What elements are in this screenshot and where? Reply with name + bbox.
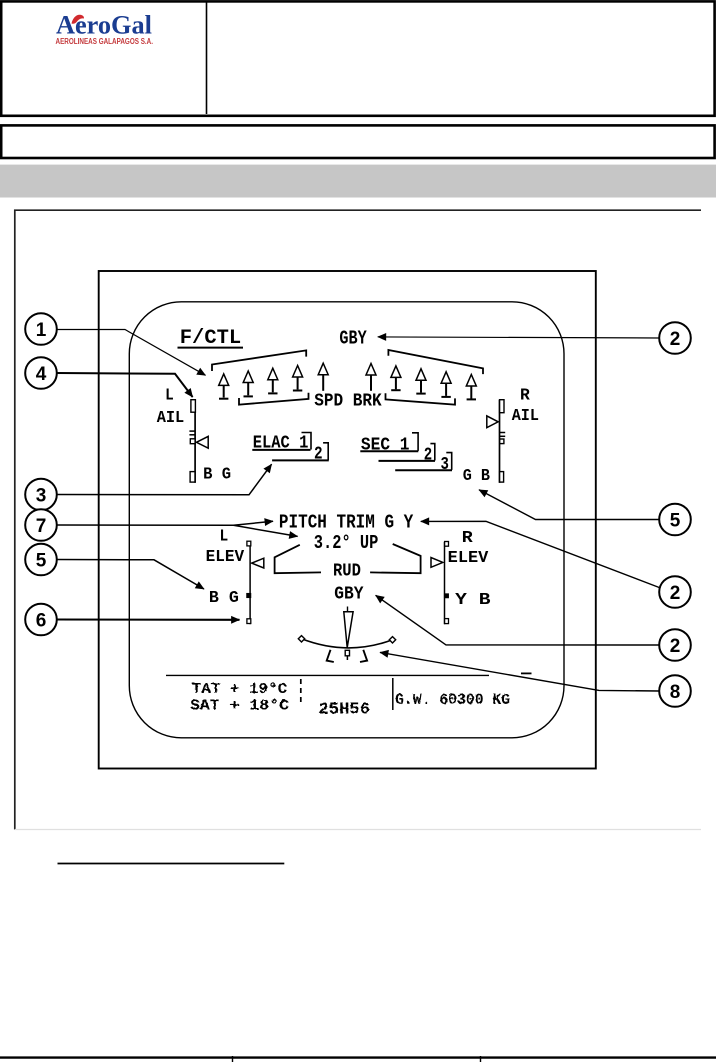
spoiler arrow L5 bbox=[318, 363, 328, 391]
svg-text:RUD: RUD bbox=[333, 562, 361, 582]
svg-text:3: 3 bbox=[36, 485, 47, 506]
callout line 2 mid bbox=[421, 521, 661, 588]
data row dashed divider bbox=[300, 679, 302, 706]
callout line 7 lower bbox=[234, 525, 298, 536]
callout circle 2 bbox=[659, 629, 691, 661]
svg-text:2: 2 bbox=[424, 445, 432, 465]
spoiler arrow L3 bbox=[268, 368, 278, 393]
svg-text:8: 8 bbox=[670, 682, 681, 703]
callout line 1 bbox=[57, 330, 206, 376]
svg-text:GBY: GBY bbox=[339, 327, 367, 349]
svg-text:SEC 1: SEC 1 bbox=[361, 435, 410, 455]
data row top line bbox=[166, 674, 489, 676]
svg-text:7: 7 bbox=[36, 516, 47, 537]
TAT SAT text bbox=[190, 681, 510, 719]
svg-text:G B: G B bbox=[463, 467, 490, 486]
svg-text:L: L bbox=[220, 527, 229, 546]
rudder right diamond bbox=[389, 637, 395, 643]
svg-text:3: 3 bbox=[441, 455, 449, 475]
svg-text:5: 5 bbox=[670, 510, 681, 531]
spoiler arrow R2 bbox=[391, 366, 401, 390]
ECAM CRT rounded rect bbox=[129, 302, 564, 738]
callout line 2 top bbox=[378, 337, 659, 338]
svg-text:SPD BRK: SPD BRK bbox=[314, 391, 382, 412]
callout line 3 bbox=[57, 464, 272, 495]
rudder right foot bbox=[360, 650, 367, 662]
R ELEV scale bbox=[431, 542, 449, 625]
svg-text:1: 1 bbox=[36, 320, 47, 341]
header divider bbox=[206, 2, 208, 114]
callout line 5 right bbox=[479, 490, 659, 520]
right spoiler slant line bbox=[388, 350, 483, 374]
callout circle 3 bbox=[25, 479, 57, 511]
svg-text:AIL: AIL bbox=[512, 406, 539, 425]
ECAM outer bezel rect bbox=[99, 271, 596, 769]
callout circle 8 bbox=[659, 675, 691, 707]
rudder left foot bbox=[327, 650, 334, 662]
svg-text:2: 2 bbox=[670, 329, 681, 350]
svg-text:AEROLINEAS GALAPAGOS S.A.: AEROLINEAS GALAPAGOS S.A. bbox=[56, 36, 154, 46]
rudder needle bbox=[347, 607, 349, 612]
footnote rule bbox=[58, 863, 285, 865]
svg-text:ELEV: ELEV bbox=[206, 547, 245, 566]
header outer box bbox=[1, 1, 714, 115]
svg-text:25H56: 25H56 bbox=[318, 699, 370, 718]
callout circle 6 bbox=[25, 604, 57, 636]
callout circle 1 bbox=[25, 313, 57, 345]
svg-text:2: 2 bbox=[314, 445, 323, 465]
RUD trapezoid bracket bbox=[275, 545, 321, 573]
svg-text:6: 6 bbox=[36, 610, 47, 631]
callout circle 5 bbox=[25, 544, 57, 576]
right spoiler bracket bbox=[386, 393, 456, 404]
svg-text:TAT + 19°C: TAT + 19°C bbox=[192, 681, 287, 698]
spoiler arrow R4 bbox=[441, 372, 451, 397]
figure frame left+top bbox=[15, 210, 701, 829]
callout line 4 bbox=[57, 373, 193, 397]
callout line 7 upper bbox=[57, 521, 273, 525]
R AIL scale bbox=[487, 400, 505, 483]
svg-text:2: 2 bbox=[670, 583, 681, 604]
svg-text:G.W. 60300 KG: G.W. 60300 KG bbox=[395, 691, 510, 709]
empty title box bbox=[1, 125, 714, 158]
svg-text:L: L bbox=[165, 386, 174, 405]
gray section bar bbox=[0, 165, 716, 198]
svg-text:PITCH TRIM G Y: PITCH TRIM G Y bbox=[279, 511, 414, 533]
spoiler arrow L4 bbox=[293, 366, 303, 391]
spoiler arrow L2 bbox=[243, 371, 253, 396]
bottom table divider stubs bbox=[232, 1056, 234, 1062]
callout circle 5 bbox=[659, 504, 691, 536]
svg-text:2: 2 bbox=[670, 636, 681, 657]
rudder arc bbox=[302, 639, 393, 648]
callout circle 4 bbox=[25, 357, 57, 389]
L AIL scale bbox=[189, 399, 208, 483]
svg-text:R: R bbox=[520, 386, 530, 405]
callout line 8 bbox=[380, 652, 659, 691]
svg-text:3.2° UP: 3.2° UP bbox=[314, 532, 379, 554]
callout circle 2 bbox=[659, 576, 691, 608]
callout circle 7 bbox=[25, 509, 57, 541]
svg-text:5: 5 bbox=[36, 550, 47, 571]
callout line 5 left bbox=[57, 560, 204, 590]
figure frame faint bottom bbox=[15, 829, 701, 831]
svg-text:ELEV: ELEV bbox=[448, 548, 489, 567]
svg-text:B G: B G bbox=[209, 589, 239, 608]
svg-text:4: 4 bbox=[36, 364, 47, 385]
rudder center square bbox=[345, 650, 349, 656]
left spoiler bracket bbox=[239, 393, 309, 405]
spoiler arrow R1 bbox=[366, 364, 376, 391]
logo bird bbox=[72, 15, 84, 24]
svg-text:Y B: Y B bbox=[455, 591, 490, 610]
spoiler arrow R3 bbox=[416, 369, 426, 394]
callout circle 2 bbox=[659, 322, 691, 354]
rudder left diamond bbox=[298, 636, 304, 642]
svg-text:GBY: GBY bbox=[334, 584, 363, 604]
svg-text:SAT + 18°C: SAT + 18°C bbox=[190, 697, 289, 714]
svg-text:AIL: AIL bbox=[157, 408, 185, 427]
left spoiler slant line bbox=[212, 350, 306, 371]
data row solid divider bbox=[392, 678, 394, 710]
svg-text:R: R bbox=[462, 528, 473, 547]
bottom table top border bbox=[0, 1056, 716, 1058]
callout line 6 bbox=[57, 618, 240, 620]
callout line 2 low bbox=[376, 595, 659, 645]
spoiler arrow L1 bbox=[219, 374, 229, 399]
L ELEV scale bbox=[247, 541, 264, 624]
svg-text:B G: B G bbox=[203, 466, 231, 485]
spoiler arrow R5 bbox=[466, 375, 476, 400]
